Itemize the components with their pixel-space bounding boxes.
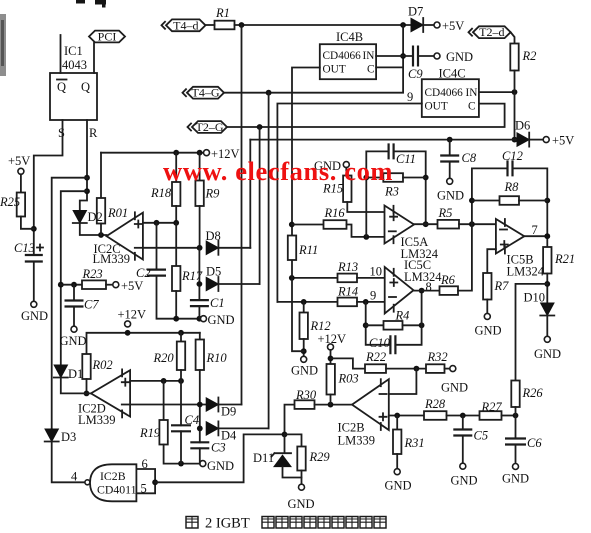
svg-text:T4–d: T4–d (173, 18, 198, 32)
svg-text:PCI: PCI (98, 30, 117, 44)
wire R18 top lead (175, 153, 177, 182)
svg-text:D7: D7 (408, 5, 423, 19)
wire C11 feedback loop left (366, 151, 388, 237)
capacitor C2 (147, 270, 166, 276)
wire D2 to IC2C output node (80, 224, 107, 235)
wire R9 to D8 node (199, 206, 201, 248)
capacitor C11 (389, 143, 394, 159)
diode D1 (54, 365, 67, 378)
svg-text:Q: Q (57, 80, 66, 94)
junction R12 top (301, 299, 307, 305)
wire bus T4-d down to D9 (241, 25, 243, 405)
ground R7 (484, 313, 490, 319)
junction D11 node (282, 432, 288, 438)
capacitor C1 (190, 300, 209, 306)
svg-text:IC2B: IC2B (338, 421, 365, 435)
svg-text:D3: D3 (61, 430, 76, 444)
resistor R30 (295, 400, 315, 409)
wire R13 line (pin10) (292, 277, 338, 279)
node T2-d flag (473, 26, 511, 38)
junction R5/feedback column (469, 221, 475, 227)
wire IC2D + line (130, 380, 181, 382)
resistor R28 (424, 411, 447, 420)
wire bus D6 rail down to D8 (249, 140, 251, 248)
wire C8 top (449, 140, 451, 156)
junction bus2/R23 (58, 282, 64, 288)
resistor R19 (159, 420, 167, 445)
ground C5 (460, 463, 466, 469)
svg-text:R7: R7 (494, 279, 510, 293)
junction C8 column (447, 137, 453, 143)
op-amp IC2B (352, 379, 389, 430)
svg-text:R12: R12 (310, 319, 331, 333)
wire R01 top to +12V rail (100, 153, 102, 198)
junction T4-G bus (266, 90, 272, 96)
wire IC2C + input line (143, 222, 176, 224)
junction R4 left (363, 322, 369, 328)
svg-text:+5V: +5V (552, 134, 574, 148)
resistor R1 (215, 21, 235, 30)
diode D2 (73, 211, 86, 224)
wire R8 line right (519, 200, 547, 202)
ground C13 (31, 301, 37, 307)
resistor R22 (365, 364, 386, 373)
wire IC4B C pin (376, 66, 403, 68)
svg-text:R03: R03 (338, 372, 359, 386)
ground C8 (447, 178, 453, 184)
junction R3 right (423, 175, 429, 181)
junction feedback/R32 (414, 366, 420, 372)
junction bus/R16 (289, 222, 295, 228)
diode D8 (206, 241, 218, 254)
resistor R4 (384, 321, 403, 330)
svg-text:D8: D8 (206, 229, 221, 243)
junction feedback tap (363, 299, 369, 305)
resistor R11 (288, 236, 296, 261)
wire IC5B + stub to R7 (487, 249, 496, 273)
resistor R31 (393, 430, 401, 455)
svg-text:D10: D10 (524, 291, 546, 305)
wire IC5C out (pin8) to R6 (414, 290, 440, 292)
svg-text:GND: GND (291, 364, 318, 378)
wire T2-G line to IC4C C pin (227, 104, 505, 127)
junction IC5A out (423, 221, 429, 227)
svg-text:T4–G: T4–G (192, 86, 220, 100)
wire R14 to IC5C - (357, 301, 385, 303)
wire D4 to bus T4-G (218, 427, 268, 429)
wire C12 right (513, 168, 548, 247)
svg-text:R21: R21 (554, 252, 575, 266)
wire R18 to IC2C + line (175, 206, 177, 223)
junction -/D8/C1 (197, 245, 203, 251)
wire C13 to GND (33, 262, 35, 302)
wire D8 to T4d-bus? no - to bus 250 (218, 247, 250, 249)
svg-text:R9: R9 (205, 187, 221, 201)
resistor R03 (327, 364, 335, 395)
svg-text:C11: C11 (396, 152, 416, 166)
wire R30 left to D11 node (285, 405, 295, 435)
wire C5 to GND (462, 436, 464, 464)
node T4-d flag (166, 19, 206, 31)
wire C12 line (472, 167, 508, 169)
svg-text:R25: R25 (0, 195, 20, 209)
IC1 Q lead to PCI (93, 43, 95, 73)
resistor R3 (383, 173, 403, 182)
wire bus R to D1 (61, 191, 87, 365)
svg-text:LM324: LM324 (507, 265, 545, 279)
junction C7 tap (71, 282, 77, 288)
svg-text:R19: R19 (139, 426, 161, 440)
wire D6 anode rail (250, 139, 517, 141)
resistor R10 (196, 340, 204, 371)
svg-text:GND: GND (288, 497, 315, 511)
diode D3 (45, 429, 58, 442)
svg-text:+12V: +12V (118, 308, 147, 322)
junction R12/bus end (301, 348, 307, 354)
wire R20 to + line (180, 370, 182, 381)
wire R10 top lead (199, 333, 201, 340)
svg-text:IC2B: IC2B (100, 469, 126, 483)
ground R15 (top) (343, 162, 349, 168)
junction R18/R17/+ line (173, 220, 179, 226)
+5V supply at D7 (434, 22, 440, 28)
resistor R02 (82, 354, 90, 379)
svg-text:R6: R6 (440, 273, 456, 287)
wire IC4C IN to R2 column (479, 91, 515, 93)
resistor R20 (177, 342, 185, 371)
svg-text:R01: R01 (107, 206, 128, 220)
svg-text:GND: GND (207, 459, 234, 473)
ground C9 (434, 53, 440, 59)
capacitor C6 (505, 439, 526, 445)
svg-text:C7: C7 (84, 298, 99, 312)
wire R15 to IC5A + (347, 202, 384, 212)
diode D4 (206, 422, 218, 435)
gate IC2B CD4011 body (90, 464, 136, 501)
junction R17/GND line (173, 316, 179, 322)
svg-text:9: 9 (407, 90, 413, 104)
wire R9 top lead (199, 153, 201, 181)
wire R22 to R32 (386, 368, 426, 370)
svg-text:CD4066: CD4066 (425, 87, 464, 99)
svg-text:R29: R29 (309, 450, 331, 464)
junction bus/R13 (289, 275, 295, 281)
svg-text:GND: GND (60, 334, 87, 348)
junction D2/R01/IC2C out (98, 232, 104, 238)
junction R8 left (469, 198, 475, 204)
svg-text:S: S (58, 126, 65, 140)
wire IC2C - input line (143, 247, 200, 249)
wire C5 column (462, 416, 464, 430)
wire R7 to GND (486, 300, 488, 314)
node T4-G flag (187, 87, 224, 99)
svg-text:4043: 4043 (62, 58, 87, 72)
wire C3 to GND (199, 448, 201, 463)
svg-text:R28: R28 (424, 397, 446, 411)
svg-text:5: 5 (141, 481, 147, 495)
svg-text:R22: R22 (365, 350, 386, 364)
svg-text:R31: R31 (404, 436, 425, 450)
wire R14 line (pin9) (277, 301, 337, 303)
svg-text:C4: C4 (185, 413, 200, 427)
capacitor C12 (508, 160, 513, 176)
wire R32 to GND (445, 368, 450, 370)
resistor R8 (500, 196, 520, 205)
svg-text:IC4C: IC4C (439, 67, 466, 81)
resistor R32 (426, 364, 445, 373)
resistor R25 (17, 193, 25, 217)
wire IC5B out (pin7) (524, 235, 547, 237)
svg-text:GND: GND (451, 474, 478, 488)
junction R20/C4/+ line (178, 378, 184, 384)
junction R10/D9 (197, 402, 203, 408)
junction pin7 (544, 233, 550, 239)
wire T4-d through R1 to D7 (206, 24, 215, 26)
wire R17 to GND line (175, 291, 177, 319)
wire bus T2-G down to D5 (259, 127, 261, 284)
junction +12V/R22 branch (328, 356, 334, 362)
wire IC5A out to R5 (414, 223, 438, 225)
wire C8 to GND (449, 162, 451, 179)
svg-text:LM324: LM324 (404, 270, 442, 284)
wire pin5 to D11 node (155, 434, 284, 482)
wire R2 to D6 line (514, 71, 516, 140)
svg-text:R: R (89, 126, 98, 140)
junction R26/C6 (513, 413, 519, 419)
junction R/bus2 (84, 188, 90, 194)
wire bus R to D3 (NAND input) (52, 178, 87, 429)
ground R32 (450, 366, 456, 372)
wire C1 column (198, 248, 200, 300)
IC4B CD4066 switch box (320, 44, 376, 79)
ground C1/R17/C2 (201, 316, 207, 322)
svg-text:D1: D1 (68, 367, 83, 381)
svg-text:R18: R18 (150, 186, 172, 200)
junction C2/+ line (154, 220, 160, 226)
+5V supply at D6 (543, 137, 549, 143)
resistor R16 (324, 220, 347, 229)
wire R8 line left (472, 200, 500, 202)
svg-text:R3: R3 (384, 185, 399, 199)
svg-text:C8: C8 (462, 151, 477, 165)
svg-text:D9: D9 (221, 405, 236, 419)
capacitor C4 (171, 425, 191, 431)
svg-text:C10: C10 (369, 336, 391, 350)
ground R31 (394, 469, 400, 475)
+5V supply at R25 (18, 168, 24, 174)
wire D3 to NAND input 4 (52, 443, 85, 483)
wire C7 top (73, 285, 75, 301)
svg-text:9: 9 (370, 289, 376, 303)
ground D11/R29 (299, 484, 305, 490)
svg-text:+5V: +5V (121, 279, 143, 293)
svg-text:C12: C12 (502, 149, 523, 163)
junction R9/+12V (197, 150, 203, 156)
wire D1 to IC2D out node (61, 379, 91, 393)
wire C11 to output column (394, 151, 426, 224)
op-amp IC5C (385, 267, 414, 314)
svg-text:C: C (468, 101, 476, 113)
ground C6 (513, 464, 519, 470)
junction R3 left (363, 175, 369, 181)
resistor R27 (480, 411, 502, 420)
svg-text:Q: Q (81, 80, 90, 94)
IC1 4043 latch box (50, 73, 97, 120)
wire R30 to IC2B output (315, 404, 353, 406)
junction R2/D6 line (512, 137, 518, 143)
svg-text:R16: R16 (324, 206, 346, 220)
wire bus T4-G down to D4 (268, 93, 270, 429)
svg-text:OUT: OUT (323, 64, 346, 76)
svg-text:R10: R10 (206, 351, 228, 365)
caption 图2 IGBT short-circuit protection schematic title (186, 517, 198, 529)
resistor R01 (97, 198, 105, 224)
wire D9 to bus T4-d (218, 404, 241, 406)
svg-text:D5: D5 (206, 265, 221, 279)
junction C1/GND line (197, 316, 203, 322)
resistor R13 (338, 274, 358, 283)
zener diode D11 (272, 434, 292, 456)
wire R21 to D10 node (546, 274, 548, 304)
junction feedback/- line (363, 234, 369, 240)
wire branch to R26 (516, 284, 548, 381)
wire IC2D - line to D9 (130, 404, 206, 406)
wire R4 line right (403, 324, 422, 326)
junction pin5 node (152, 479, 158, 485)
wire R13 to IC5C + (357, 277, 385, 279)
junction C4/GND line (178, 461, 184, 467)
svg-text:R32: R32 (427, 350, 448, 364)
wire C2 column (156, 223, 158, 270)
op-amp IC5A (385, 206, 415, 244)
svg-text:+5V: +5V (8, 154, 30, 168)
op-amp IC5B (496, 219, 524, 254)
diode D5 (206, 277, 218, 290)
wire C2 to GND line (157, 276, 201, 319)
wire R6 to IC5B - column (458, 168, 472, 290)
resistor R18 (172, 182, 180, 206)
svg-text:R5: R5 (438, 206, 453, 220)
wire R29 to GND (301, 471, 303, 485)
+12V supply A (204, 150, 210, 156)
wire R4 line left (366, 324, 384, 326)
junction C1/D5 (197, 281, 203, 287)
resistor R7 (483, 273, 491, 300)
junction R03/out (328, 402, 334, 408)
IC1 Qbar lead (60, 35, 62, 73)
junction D4 tap (197, 426, 203, 432)
resistor R29 (297, 447, 305, 471)
junction T2-G bus (257, 124, 263, 130)
capacitor C7 (65, 301, 84, 307)
svg-text:GND: GND (385, 479, 412, 493)
svg-text:OUT: OUT (425, 101, 448, 113)
wire D7 to +5V (423, 24, 434, 26)
IC4C CD4066 switch box (422, 79, 479, 117)
svg-text:GND: GND (534, 347, 561, 361)
svg-text:www. elecfans. com: www. elecfans. com (163, 156, 393, 186)
wire R02 to IC2D out node (86, 379, 88, 393)
svg-text:IC1: IC1 (64, 44, 83, 58)
capacitor C10 (390, 335, 395, 354)
wire bus to R16 (292, 224, 324, 226)
svg-text:8: 8 (426, 280, 432, 294)
resistor R15 (343, 176, 351, 203)
svg-text:D6: D6 (515, 119, 530, 133)
wire C6 column (515, 416, 517, 439)
svg-text:R11: R11 (298, 243, 318, 257)
wire bus2 to R23 (61, 284, 82, 286)
resistor R2 (510, 44, 518, 71)
capacitor C13 (polarized) (25, 255, 43, 262)
junction S/R25/C13 (31, 226, 37, 232)
wire D6 to +5V (529, 139, 543, 141)
junction IN/R2 column (512, 89, 518, 95)
junction R02/out (84, 391, 90, 397)
junction R31 tap (394, 413, 400, 419)
wire IC2B - to feedback (389, 369, 417, 394)
svg-text:R14: R14 (337, 285, 358, 299)
wire GND to R15 (346, 168, 347, 176)
gate input bubble (85, 480, 90, 485)
wire R25 to node (21, 217, 34, 229)
svg-text:R26: R26 (522, 386, 544, 400)
wire IC2B + line (389, 415, 424, 417)
wire R26 to R27 node (515, 407, 517, 416)
wire C6 to GND (515, 445, 517, 464)
svg-text:6: 6 (142, 457, 148, 471)
wire R19 column (163, 381, 165, 420)
svg-text:GND: GND (475, 324, 502, 338)
capacitor C8 (440, 156, 459, 162)
junction R4 right (419, 322, 425, 328)
ground C3/C4/R19 (200, 461, 206, 467)
wire C4 column (180, 381, 182, 425)
junction R18/+12V (173, 150, 179, 156)
svg-text:IN: IN (363, 50, 375, 62)
wire IC5C feedback down (366, 302, 391, 345)
wire bus291 bottom corner (292, 236, 304, 352)
svg-text:R02: R02 (92, 358, 113, 372)
junction IC4B IN/C9 (400, 53, 406, 59)
+12V supply C (328, 344, 334, 350)
resistor R23 (82, 280, 106, 289)
+12V supply B (125, 321, 131, 327)
capacitor C3 (190, 442, 209, 448)
svg-text:GND: GND (21, 309, 48, 323)
wire R3 line left (366, 177, 383, 179)
svg-text:C5: C5 (474, 429, 489, 443)
scan artifact top-left fragments (76, 0, 106, 8)
wire +12V to R03 (330, 350, 332, 364)
resistor R12 (300, 313, 308, 340)
svg-text:R13: R13 (337, 260, 358, 274)
wire +12V rail A (101, 152, 204, 154)
wire C7 to GND (73, 307, 75, 327)
wire +12V branch to R22 (331, 358, 366, 368)
wire R12 to GND (303, 339, 305, 356)
wire C1 to GND line (198, 306, 200, 319)
ground D10 (544, 336, 550, 342)
ground R12 (301, 356, 307, 362)
svg-text:GND: GND (441, 381, 468, 395)
resistor R17 (172, 266, 180, 291)
svg-text:C2: C2 (136, 266, 151, 280)
wire D3 column (51, 428, 53, 430)
node T2-G flag (192, 121, 227, 133)
svg-text:C3: C3 (211, 441, 226, 455)
svg-text:2 IGBT: 2 IGBT (205, 516, 250, 532)
